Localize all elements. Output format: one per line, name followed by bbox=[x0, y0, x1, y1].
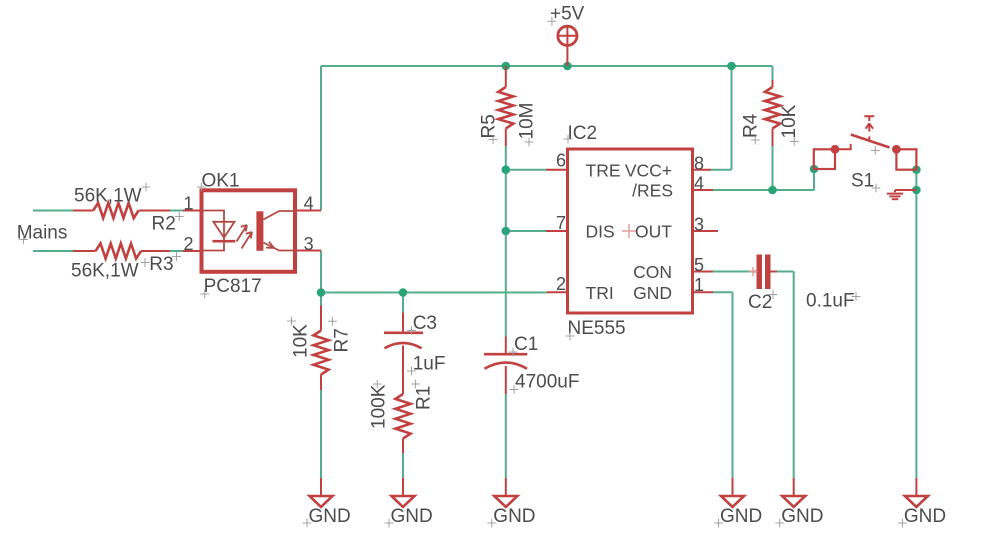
origin cross GND R7 bbox=[303, 519, 312, 528]
wire S1 right contacts bbox=[915, 170, 917, 190]
capacitor C3 bbox=[384, 313, 423, 395]
origin cross R2 value bbox=[142, 183, 151, 192]
origin cross R3 value bbox=[141, 258, 150, 267]
resistor R7 bbox=[313, 306, 328, 391]
svg-text:1uF: 1uF bbox=[413, 353, 446, 374]
junction node bottom net C3 bbox=[399, 288, 408, 297]
svg-text:7: 7 bbox=[556, 213, 566, 233]
wire C2 down to GND bbox=[793, 272, 795, 479]
origin cross R7 bbox=[328, 317, 337, 326]
wire top rail bbox=[321, 65, 773, 67]
origin cross R5 bbox=[489, 135, 498, 144]
junction node top rail +5V bbox=[563, 62, 572, 71]
svg-text:8: 8 bbox=[694, 154, 704, 174]
origin cross 0.1uF bbox=[852, 292, 861, 301]
svg-text:/RES: /RES bbox=[632, 180, 673, 200]
svg-text:4: 4 bbox=[304, 194, 314, 214]
wire pin1 down to GND bbox=[732, 292, 734, 478]
svg-text:TRE: TRE bbox=[586, 160, 621, 180]
ground GND under C1 bbox=[494, 478, 517, 507]
svg-text:GND: GND bbox=[720, 506, 762, 527]
wire down to C1 bbox=[505, 231, 507, 337]
junction node S1 right lower bbox=[912, 186, 921, 195]
wire R5 bottom to pin6 net bbox=[505, 146, 507, 231]
svg-text:NE555: NE555 bbox=[568, 318, 626, 339]
optocoupler OK1 bbox=[183, 190, 321, 271]
svg-text:PC817: PC817 bbox=[204, 276, 262, 297]
svg-text:OUT: OUT bbox=[635, 221, 672, 241]
junction node top rail R5 bbox=[502, 62, 511, 71]
wire R7 top bbox=[320, 293, 322, 306]
resistor R1 bbox=[395, 394, 410, 453]
origin cross GND C1 bbox=[487, 519, 496, 528]
origin cross 10M bbox=[525, 138, 534, 147]
capacitor C2 bbox=[753, 255, 777, 290]
svg-text:C1: C1 bbox=[514, 334, 538, 355]
svg-text:GND: GND bbox=[391, 506, 433, 527]
wire Mains bottom segment bbox=[33, 250, 73, 252]
supply +5V symbol bbox=[558, 26, 577, 66]
svg-text:VCC+: VCC+ bbox=[625, 160, 672, 180]
svg-text:10M: 10M bbox=[517, 103, 538, 140]
origin cross GND C2 bbox=[775, 519, 784, 528]
svg-text:C3: C3 bbox=[413, 313, 437, 334]
svg-text:R2: R2 bbox=[152, 214, 176, 235]
origin cross C1 bbox=[509, 348, 518, 357]
origin cross GND R1 bbox=[385, 519, 394, 528]
svg-text:R5: R5 bbox=[479, 114, 500, 138]
origin cross R2 name bbox=[175, 212, 184, 221]
origin cross 100K bbox=[373, 380, 382, 389]
junction node R4 bottom bbox=[768, 186, 777, 195]
wire S1 down to GND bbox=[915, 190, 917, 478]
svg-text:2: 2 bbox=[183, 234, 193, 254]
wire R2 to OK1 pin1 bbox=[170, 210, 183, 212]
origin cross 4700uF bbox=[510, 385, 519, 394]
svg-text:CON: CON bbox=[633, 262, 672, 282]
svg-text:3: 3 bbox=[694, 215, 704, 235]
wire OK1 pin3 down bbox=[320, 251, 322, 294]
svg-text:Mains: Mains bbox=[17, 223, 68, 244]
svg-text:GND: GND bbox=[309, 506, 351, 527]
svg-text:56K,1W: 56K,1W bbox=[74, 185, 142, 206]
wire pin5 to C2 bbox=[713, 271, 753, 273]
wire pin4 net up to S1 bbox=[813, 169, 815, 190]
origin cross Mains bbox=[19, 235, 28, 244]
origin cross GND S1 bbox=[898, 519, 907, 528]
ground GND under R1 bbox=[392, 478, 415, 507]
wire R4 top lead bbox=[772, 66, 774, 80]
wire R3 to OK1 pin2 bbox=[170, 250, 183, 252]
earth ground at S1 bbox=[887, 190, 917, 199]
svg-text:10K: 10K bbox=[779, 104, 800, 138]
svg-text:GND: GND bbox=[781, 506, 823, 527]
junction node bottom net left bbox=[317, 288, 326, 297]
svg-text:4700uF: 4700uF bbox=[515, 372, 579, 393]
svg-text:DIS: DIS bbox=[586, 221, 615, 241]
origin cross NE555 bbox=[566, 332, 575, 341]
svg-text:R7: R7 bbox=[332, 328, 353, 352]
origin cross S1 symbol bbox=[871, 146, 880, 155]
resistor R2 bbox=[73, 203, 170, 218]
capacitor C1 bbox=[484, 337, 527, 395]
origin cross S1 name bbox=[872, 184, 881, 193]
junction node S1 left bbox=[810, 165, 819, 174]
wire R1 bottom to GND bbox=[402, 453, 404, 478]
origin cross C2 symbol bbox=[749, 267, 758, 276]
origin cross 1uF bbox=[407, 367, 416, 376]
resistor R5 bbox=[498, 66, 513, 146]
svg-text:S1: S1 bbox=[851, 171, 874, 192]
origin cross R1 bbox=[411, 380, 420, 389]
junction node pin6 bbox=[502, 165, 511, 174]
svg-text:1: 1 bbox=[183, 194, 193, 214]
ground GND under R7 bbox=[310, 478, 333, 507]
wire C3 top bbox=[402, 293, 404, 313]
origin cross GND pin1 bbox=[714, 519, 723, 528]
IC U 555 box IC2 bbox=[546, 149, 718, 313]
switch S1 bbox=[814, 116, 917, 169]
origin cross IC2 center bbox=[622, 224, 636, 238]
wire C2 right bbox=[777, 271, 794, 273]
svg-text:GND: GND bbox=[493, 506, 535, 527]
svg-text:R1: R1 bbox=[414, 386, 435, 410]
svg-text:100K: 100K bbox=[369, 384, 390, 429]
wire bottom net pin2 row bbox=[321, 292, 547, 294]
origin cross R3 name bbox=[172, 252, 181, 261]
svg-text:10K: 10K bbox=[291, 324, 312, 358]
ground GND under C2 bbox=[782, 478, 805, 507]
svg-text:1: 1 bbox=[694, 275, 704, 295]
wire pin8 horizontal bbox=[711, 169, 732, 171]
wire Mains top segment bbox=[33, 210, 73, 212]
svg-text:GND: GND bbox=[904, 506, 946, 527]
wire pin8 up to rail bbox=[731, 66, 733, 170]
junction node pin7 bbox=[502, 227, 511, 236]
ground GND under pin1 bbox=[721, 478, 744, 507]
origin cross 10K R4 bbox=[790, 137, 799, 146]
wire pin1 net bbox=[713, 291, 733, 293]
wire OK1 pin4 up to top rail bbox=[320, 66, 322, 211]
svg-text:4: 4 bbox=[694, 174, 704, 194]
junction node S1 right upper bbox=[912, 165, 921, 174]
resistor R3 bbox=[73, 243, 170, 258]
svg-text:OK1: OK1 bbox=[202, 171, 240, 192]
svg-text:56K,1W: 56K,1W bbox=[71, 261, 139, 282]
svg-text:IC2: IC2 bbox=[568, 123, 598, 144]
origin cross C2 name bbox=[769, 290, 778, 299]
ground GND under S1 bbox=[905, 478, 928, 507]
wire R4 bottom to pin4 net bbox=[772, 146, 774, 190]
svg-text:R4: R4 bbox=[741, 113, 762, 138]
svg-text:TRI: TRI bbox=[586, 283, 614, 303]
svg-text:C2: C2 bbox=[748, 292, 772, 313]
wire C1 bottom to GND bbox=[505, 394, 507, 478]
svg-text:3: 3 bbox=[304, 234, 314, 254]
svg-text:5: 5 bbox=[694, 255, 704, 275]
wire pin7 horizontal bbox=[506, 230, 546, 232]
origin cross C3 bbox=[407, 326, 416, 335]
svg-text:GND: GND bbox=[633, 283, 672, 303]
origin cross +5V bbox=[548, 17, 557, 26]
origin cross IC2 name bbox=[564, 135, 573, 144]
origin cross OK1 bbox=[197, 183, 206, 192]
origin cross 10K R7 bbox=[287, 317, 296, 326]
svg-text:R3: R3 bbox=[149, 254, 173, 275]
svg-text:6: 6 bbox=[556, 151, 566, 171]
wire R7 bottom to GND bbox=[320, 390, 322, 478]
resistor R4 bbox=[765, 80, 780, 146]
origin cross PC817 bbox=[200, 290, 209, 299]
svg-text:2: 2 bbox=[556, 274, 566, 294]
svg-text:0.1uF: 0.1uF bbox=[806, 291, 855, 312]
wire pin6 horizontal bbox=[506, 169, 546, 171]
wire pin4 net horizontal bbox=[713, 189, 814, 191]
junction node top rail pin8 bbox=[727, 62, 736, 71]
origin cross R4 bbox=[751, 136, 760, 145]
